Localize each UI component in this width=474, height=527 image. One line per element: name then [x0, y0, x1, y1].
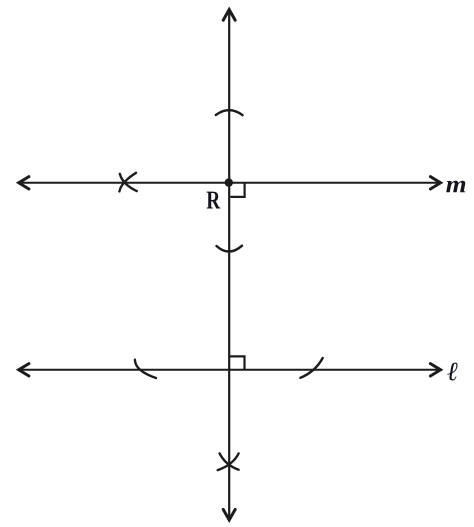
wire horizontal line l: [20, 369, 440, 371]
compass-arc cross on line m (left) : arc 1: [120, 174, 137, 191]
right-angle mark at line l: [230, 356, 245, 369]
arrow right end of line l: [430, 364, 440, 376]
arrow bottom of vertical line: [223, 509, 235, 520]
wire horizontal line m: [20, 182, 440, 184]
label l (script ell): [447, 363, 457, 381]
arrow top of vertical line: [223, 10, 235, 21]
node R (dot at intersection): [225, 178, 233, 186]
arrow right end of line m: [430, 177, 440, 189]
arc tick on vertical line below R: [217, 246, 243, 252]
label R: [207, 192, 221, 209]
wire vertical line (perpendicular through R): [228, 11, 230, 519]
compass-arc cross on vertical line (bottom) : arc 1: [220, 453, 239, 469]
arrow left end of line m: [19, 177, 29, 189]
compass-arc cross on line m (left) : arc 2: [119, 173, 136, 192]
arrow left end of line l: [19, 364, 29, 376]
label m: [446, 181, 465, 193]
arc tick on vertical line above R: [216, 110, 243, 115]
right-angle mark at R: [231, 183, 245, 197]
compass-arc cross on vertical line (bottom) : arc 2: [218, 454, 239, 471]
compass arc crossing line l (right): [300, 358, 322, 378]
compass arc crossing line l (left): [135, 360, 156, 378]
